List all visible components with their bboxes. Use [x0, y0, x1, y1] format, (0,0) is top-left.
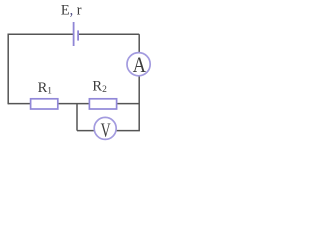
svg-text:E, r: E, r	[61, 2, 82, 18]
svg-text:V: V	[101, 119, 111, 141]
svg-text:A: A	[133, 52, 147, 77]
